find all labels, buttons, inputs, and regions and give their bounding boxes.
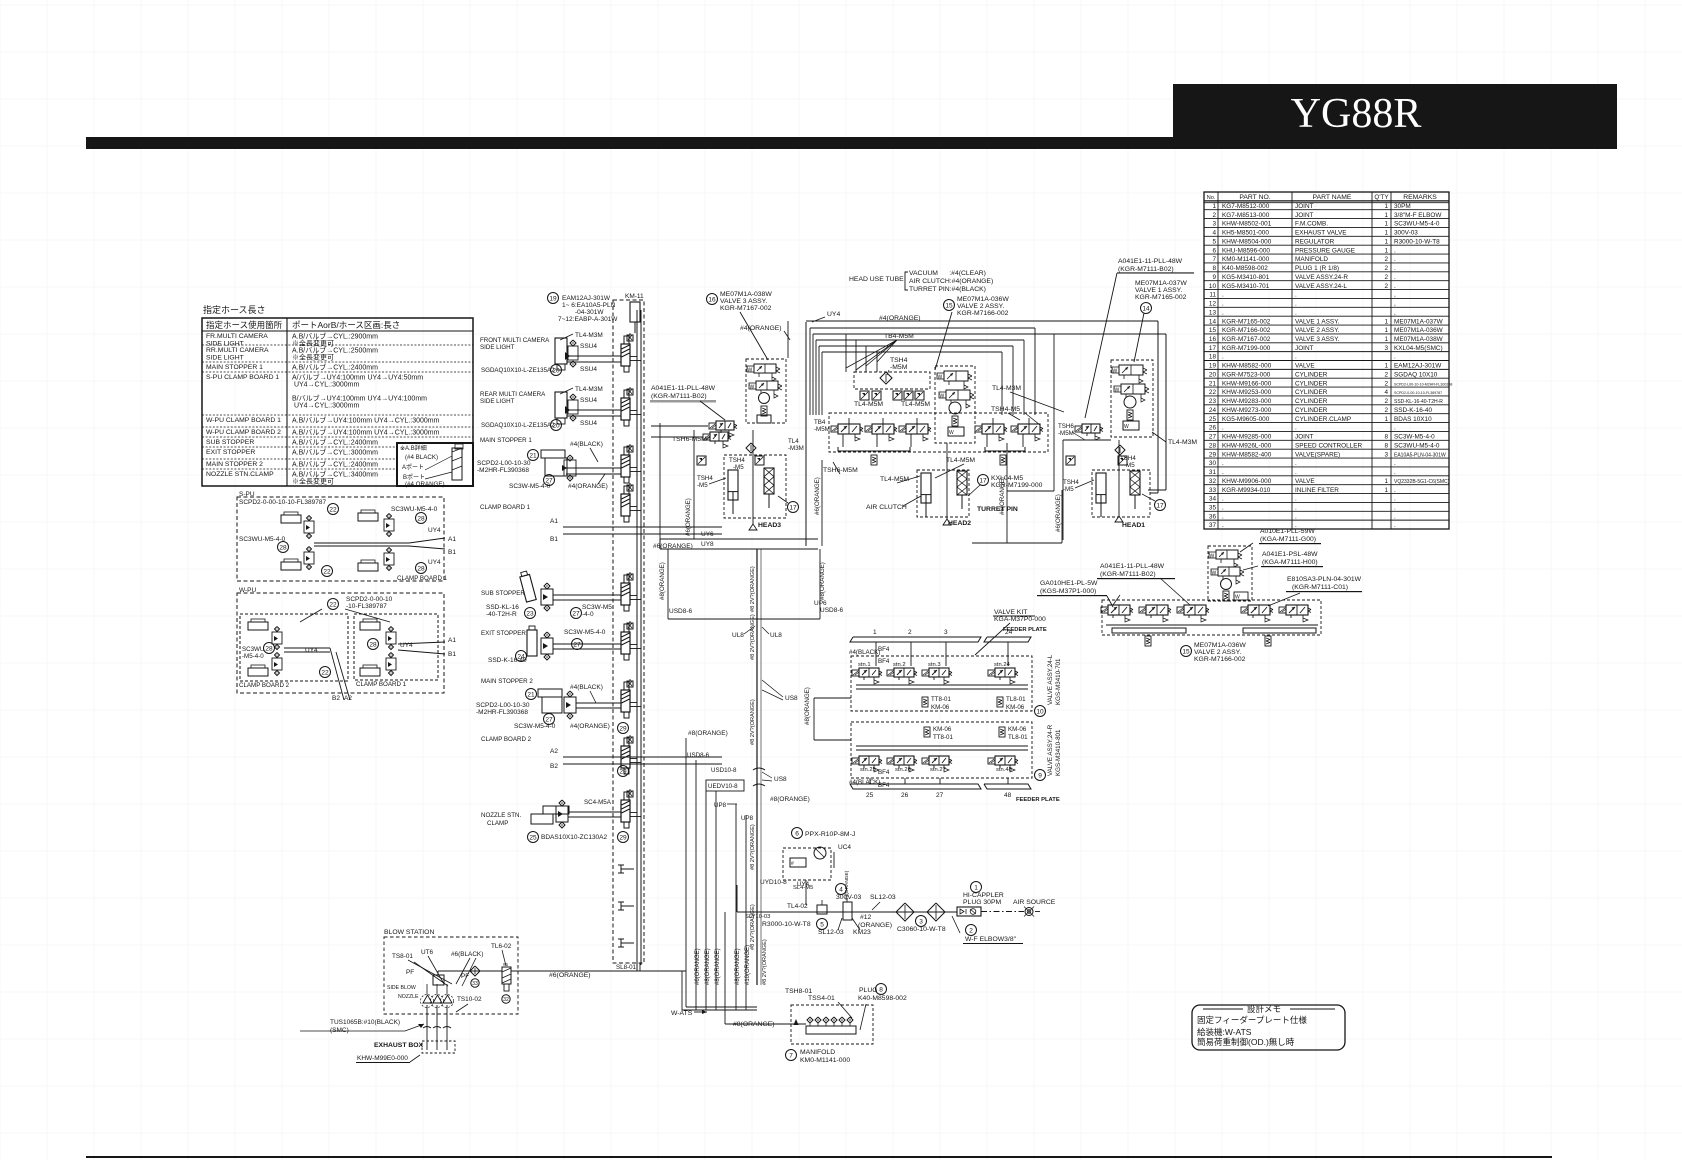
svg-text:(KGR-M7111-B02): (KGR-M7111-B02): [1100, 571, 1156, 578]
svg-text:25: 25: [1209, 416, 1217, 423]
svg-text:SSU4: SSU4: [580, 397, 597, 404]
svg-text:R3000-10-W-T8: R3000-10-W-T8: [1394, 238, 1440, 245]
svg-text:TL4-M5M: TL4-M5M: [880, 476, 909, 483]
svg-text:A.B/バルブ→CYL.:3400mm: A.B/バルブ→CYL.:3400mm: [292, 469, 378, 478]
svg-text:※A.B詳細: ※A.B詳細: [400, 444, 427, 452]
svg-text:指定ホース使用箇所: 指定ホース使用箇所: [206, 320, 283, 330]
svg-text:Bポート: Bポート: [403, 473, 425, 481]
svg-text:JOINT: JOINT: [1295, 434, 1314, 441]
svg-text:VALVE: VALVE: [1295, 478, 1315, 485]
svg-text:EAM12AJ-301W: EAM12AJ-301W: [562, 295, 611, 302]
svg-text:KGR-M7166-002: KGR-M7166-002: [957, 310, 1009, 317]
svg-text:B1: B1: [550, 536, 558, 543]
svg-text:MAIN STOPPER 1: MAIN STOPPER 1: [480, 437, 532, 444]
svg-text:KGR-M7199-000: KGR-M7199-000: [1222, 345, 1271, 352]
svg-text:B2: B2: [332, 695, 340, 702]
svg-text:48: 48: [1004, 792, 1012, 799]
svg-text:(KGR-M7111-B02): (KGR-M7111-B02): [1118, 266, 1174, 273]
svg-text:VACUUM :#4(CLEAR): VACUUM :#4(CLEAR): [909, 270, 986, 277]
svg-text:(KGS-M37P1-000): (KGS-M37P1-000): [1040, 588, 1096, 595]
svg-text:3: 3: [1384, 345, 1388, 352]
svg-text:TSH4: TSH4: [890, 357, 908, 364]
svg-text:22: 22: [323, 568, 331, 575]
svg-text:VALVE ASSY.24-R: VALVE ASSY.24-R: [1295, 274, 1348, 281]
svg-text:.: .: [1222, 354, 1224, 361]
svg-text:SL12-03: SL12-03: [870, 894, 896, 901]
svg-text:TSH4: TSH4: [729, 457, 745, 464]
svg-text:MAIN STOPPER 2: MAIN STOPPER 2: [481, 678, 533, 685]
svg-text:TUS1065B:#10(BLACK): TUS1065B:#10(BLACK): [330, 1019, 400, 1026]
svg-text:stn.27: stn.27: [930, 767, 946, 773]
svg-text:B1: B1: [448, 651, 456, 658]
svg-text:TL4-M3M: TL4-M3M: [575, 332, 603, 339]
svg-text:UY4: UY4: [827, 311, 840, 318]
svg-text:W-PU CLAMP BOARD 1: W-PU CLAMP BOARD 1: [206, 417, 281, 424]
svg-text:(ORANGE): (ORANGE): [858, 922, 892, 929]
svg-text:,: ,: [1394, 309, 1396, 316]
svg-text:KHU-M8596-000: KHU-M8596-000: [1222, 247, 1270, 254]
svg-text:34: 34: [1209, 496, 1217, 503]
svg-text:-M5-4-0: -M5-4-0: [242, 653, 264, 660]
svg-text:TL4-M3M: TL4-M3M: [1168, 439, 1197, 446]
svg-text:A2: A2: [550, 748, 558, 755]
svg-text:1~ 6:EA10A5-PLN: 1~ 6:EA10A5-PLN: [562, 302, 616, 309]
svg-text:14: 14: [1142, 305, 1150, 312]
svg-text:UY8: UY8: [701, 541, 714, 548]
svg-text:SCPD2-0-00-10-10-FL389787: SCPD2-0-00-10-10-FL389787: [239, 499, 326, 506]
svg-text:6: 6: [1212, 247, 1216, 254]
svg-text:BDAS 10X10: BDAS 10X10: [1394, 416, 1432, 423]
svg-text:#6(ORANGE): #6(ORANGE): [814, 477, 821, 515]
svg-text:8: 8: [879, 986, 883, 993]
svg-text:KGR-M7165-002: KGR-M7165-002: [1222, 318, 1271, 325]
svg-text:19: 19: [549, 295, 557, 302]
svg-text:W: W: [949, 430, 954, 436]
svg-text:KHW-M99E0-000: KHW-M99E0-000: [357, 1055, 408, 1062]
svg-text:29: 29: [619, 834, 627, 841]
svg-text:JOINT: JOINT: [1295, 345, 1314, 352]
svg-text:stn.3: stn.3: [928, 662, 941, 668]
svg-text:3/8"M-F ELBOW: 3/8"M-F ELBOW: [1394, 212, 1442, 219]
svg-text:#4(BLACK): #4(BLACK): [570, 684, 603, 691]
svg-text:AIR SOURCE: AIR SOURCE: [1013, 899, 1056, 906]
svg-text:.: .: [1394, 496, 1396, 503]
svg-text:KHW-M8582-000: KHW-M8582-000: [1222, 363, 1272, 370]
svg-text:28: 28: [279, 544, 287, 551]
svg-text:(#4 ORANGE): (#4 ORANGE): [405, 481, 445, 488]
svg-text:2: 2: [1384, 274, 1388, 281]
svg-text:.: .: [1394, 247, 1396, 254]
svg-text:SC3WU: SC3WU: [242, 646, 264, 653]
svg-text:TL8-01: TL8-01: [1006, 696, 1026, 703]
svg-text:US8: US8: [785, 695, 798, 702]
svg-text:4: 4: [839, 886, 843, 893]
svg-text:SSD-KL-16: SSD-KL-16: [486, 604, 519, 611]
svg-text:2: 2: [908, 629, 912, 636]
svg-text:#8 2V?(ORANGE): #8 2V?(ORANGE): [750, 614, 756, 660]
svg-text:TSH4: TSH4: [1063, 479, 1079, 486]
svg-text:.: .: [1394, 522, 1396, 529]
svg-text:EXHAUST BOX: EXHAUST BOX: [374, 1042, 424, 1049]
svg-text:VALVE 2 ASSY.: VALVE 2 ASSY.: [1194, 649, 1241, 656]
svg-text:VALVE 3 ASSY.: VALVE 3 ASSY.: [720, 298, 767, 305]
svg-text:ME07M1A-036W: ME07M1A-036W: [1194, 642, 1246, 649]
svg-text:-M5M: -M5M: [1058, 430, 1074, 437]
svg-text:.: .: [1295, 460, 1297, 467]
svg-text:SSD-KL-16-40-T2H-R: SSD-KL-16-40-T2H-R: [1394, 399, 1443, 405]
svg-text:3: 3: [1384, 451, 1388, 458]
svg-text:SPEED CONTROLLER: SPEED CONTROLLER: [1295, 442, 1363, 449]
svg-text:TSH6-M5M: TSH6-M5M: [823, 467, 858, 474]
svg-text:TSH6-M5M: TSH6-M5M: [672, 436, 707, 443]
svg-text:UC4: UC4: [838, 844, 851, 851]
svg-text:TT8-01: TT8-01: [933, 734, 954, 741]
svg-text:ME07M1A-038W: ME07M1A-038W: [720, 291, 772, 298]
svg-text:BLOW STATION: BLOW STATION: [384, 929, 434, 936]
svg-text:CYLINDER: CYLINDER: [1295, 389, 1328, 396]
svg-text:CLAMP BOARD 1: CLAMP BOARD 1: [397, 575, 448, 582]
svg-text:A041E1-11-PLL-48W: A041E1-11-PLL-48W: [1118, 258, 1183, 265]
svg-text:ME07M1A-036W: ME07M1A-036W: [957, 296, 1009, 303]
svg-text:#6(ORANGE): #6(ORANGE): [999, 477, 1006, 515]
svg-text:.: .: [1394, 265, 1396, 272]
svg-text:1: 1: [873, 629, 877, 636]
svg-text:17: 17: [979, 477, 987, 484]
svg-text:JOINT: JOINT: [1295, 212, 1314, 219]
svg-text:USD8-6: USD8-6: [687, 752, 710, 759]
svg-text:12: 12: [1209, 301, 1217, 308]
svg-text:16: 16: [1209, 336, 1217, 343]
svg-text:Aポート: Aポート: [402, 463, 424, 471]
svg-text:.: .: [1295, 309, 1297, 316]
svg-text:UY4: UY4: [797, 881, 810, 888]
svg-text:F.M.COMB.: F.M.COMB.: [1295, 221, 1328, 228]
svg-text:CYLINDER: CYLINDER: [1295, 398, 1328, 405]
svg-text:,: ,: [1394, 301, 1396, 308]
svg-text:.: .: [1394, 283, 1396, 290]
svg-text:REGULATOR: REGULATOR: [1295, 238, 1335, 245]
svg-text:-M3M: -M3M: [788, 445, 804, 452]
svg-text:28: 28: [1209, 442, 1217, 449]
svg-text:.: .: [1222, 309, 1224, 316]
svg-text:A.B/バルブ→CYL.:2400mm: A.B/バルブ→CYL.:2400mm: [292, 437, 378, 446]
svg-text:TL8-01: TL8-01: [1008, 734, 1028, 741]
svg-text:VALVE 3 ASSY.: VALVE 3 ASSY.: [1295, 336, 1340, 343]
svg-text:W: W: [1124, 424, 1129, 430]
svg-text:#4(ORANGE): #4(ORANGE): [570, 723, 610, 730]
svg-text:2: 2: [969, 927, 973, 934]
svg-text:R3000-10-W-T8: R3000-10-W-T8: [762, 921, 811, 928]
svg-text:W: W: [938, 375, 943, 381]
svg-text:#8 2V?(ORANGE): #8 2V?(ORANGE): [750, 824, 756, 870]
svg-text:.: .: [1394, 425, 1396, 432]
svg-text:10: 10: [1036, 708, 1044, 715]
svg-text:.: .: [1295, 496, 1297, 503]
svg-text:W: W: [1113, 369, 1118, 375]
svg-text:指定ホース長さ: 指定ホース長さ: [203, 304, 266, 315]
svg-text:KG7-M8512-000: KG7-M8512-000: [1222, 203, 1270, 210]
svg-text:#12: #12: [860, 914, 872, 921]
svg-text:USD8-6: USD8-6: [669, 608, 693, 615]
svg-text:A.B/バルブ→UY4:100mm UY4→CYL.:300: A.B/バルブ→UY4:100mm UY4→CYL.:3000mm: [292, 415, 440, 424]
svg-text:#8(ORANGE): #8(ORANGE): [733, 1021, 775, 1028]
svg-text:VALVE ASSY.24-L: VALVE ASSY.24-L: [1295, 283, 1347, 290]
svg-text:KHW-M9285-000: KHW-M9285-000: [1222, 434, 1272, 441]
svg-text:TSH4: TSH4: [1120, 455, 1136, 462]
svg-text:KHW-M9906-000: KHW-M9906-000: [1222, 478, 1272, 485]
svg-text:20: 20: [552, 367, 560, 374]
svg-text:BF4: BF4: [878, 646, 890, 653]
svg-text:.: .: [1295, 469, 1297, 476]
svg-text:28: 28: [417, 565, 425, 572]
svg-text:SC3W-M5-4-0: SC3W-M5-4-0: [509, 483, 551, 490]
svg-text:#6(ORANGE): #6(ORANGE): [1055, 494, 1062, 532]
svg-text:21: 21: [527, 691, 535, 698]
svg-text:5: 5: [820, 921, 824, 928]
svg-text:31: 31: [1209, 469, 1217, 476]
svg-text:.: .: [1222, 504, 1224, 511]
svg-text:SCPD2-L00-10-30: SCPD2-L00-10-30: [477, 460, 531, 467]
svg-text:KGR-M7523-000: KGR-M7523-000: [1222, 371, 1271, 378]
svg-text:SC3W-M5-4-0: SC3W-M5-4-0: [564, 629, 606, 636]
svg-text:-M5: -M5: [1124, 462, 1135, 469]
svg-text:#8(ORANGE): #8(ORANGE): [735, 948, 741, 985]
svg-text:GA010HE1-PL-5W: GA010HE1-PL-5W: [1040, 580, 1098, 587]
svg-text:36: 36: [1209, 513, 1217, 520]
svg-text:.: .: [1295, 301, 1297, 308]
svg-text:27: 27: [572, 610, 580, 617]
svg-text:UEDV10-8: UEDV10-8: [708, 783, 738, 790]
svg-text:PART NAME: PART NAME: [1313, 194, 1352, 201]
svg-text:.: .: [1222, 522, 1224, 529]
svg-text:20: 20: [1209, 371, 1217, 378]
svg-text:KHW-M8504-000: KHW-M8504-000: [1222, 238, 1272, 245]
svg-text:-M2HR-FL390368: -M2HR-FL390368: [477, 467, 529, 474]
svg-text:9: 9: [1212, 274, 1216, 281]
svg-text:S-PU CLAMP BOARD 1: S-PU CLAMP BOARD 1: [206, 374, 279, 381]
svg-text:22: 22: [329, 506, 337, 513]
svg-text:KHW-M9253-000: KHW-M9253-000: [1222, 389, 1272, 396]
svg-text:SC3W-M5-4-0: SC3W-M5-4-0: [514, 723, 556, 730]
svg-text:UT6: UT6: [421, 949, 434, 956]
svg-text:MAIN STOPPER 1: MAIN STOPPER 1: [206, 364, 263, 371]
svg-text:CLAMP: CLAMP: [487, 820, 508, 827]
svg-text:TS10-02: TS10-02: [457, 996, 482, 1003]
svg-text:-4-0: -4-0: [582, 611, 594, 618]
svg-text:24: 24: [1005, 629, 1013, 636]
svg-text:1: 1: [1384, 327, 1388, 334]
svg-text:EXIT STOPPER: EXIT STOPPER: [481, 630, 526, 637]
svg-text:SLY10-03: SLY10-03: [745, 914, 770, 920]
svg-text:UL8: UL8: [770, 632, 782, 639]
svg-text:#8 2V?(ORANGE): #8 2V?(ORANGE): [750, 699, 756, 745]
svg-text:8: 8: [1212, 265, 1216, 272]
svg-text:27: 27: [573, 641, 581, 648]
svg-text:33: 33: [472, 981, 478, 987]
svg-text:23: 23: [526, 610, 534, 617]
svg-text:1: 1: [1384, 221, 1388, 228]
svg-text:SCPD2-L00-10-30: SCPD2-L00-10-30: [476, 702, 530, 709]
svg-text:KG5-M9605-000: KG5-M9605-000: [1222, 416, 1270, 423]
svg-text:A2: A2: [344, 695, 352, 702]
svg-text:1: 1: [1384, 247, 1388, 254]
svg-text:(KGR-M7111-B02): (KGR-M7111-B02): [651, 393, 707, 400]
svg-text:A.B/バルブ→CYL.:2400mm: A.B/バルブ→CYL.:2400mm: [292, 459, 378, 468]
svg-text:stn.26: stn.26: [895, 767, 911, 773]
svg-text:FR.MULTI CAMERA: FR.MULTI CAMERA: [206, 333, 268, 340]
svg-text:29: 29: [619, 768, 627, 775]
svg-text:#6(ORANGE): #6(ORANGE): [685, 498, 692, 536]
svg-text:TSH4-M5: TSH4-M5: [991, 406, 1020, 413]
svg-text:BF4: BF4: [878, 769, 890, 776]
svg-text:TL4-M5M: TL4-M5M: [901, 401, 930, 408]
svg-text:15: 15: [1209, 327, 1217, 334]
svg-text:SSU4: SSU4: [580, 366, 597, 373]
svg-text:A1: A1: [550, 518, 558, 525]
svg-text:NOZZLE: NOZZLE: [398, 994, 419, 1000]
svg-text:2: 2: [1384, 407, 1388, 414]
svg-text:KGR-M7166-002: KGR-M7166-002: [1222, 327, 1271, 334]
svg-text:W-F ELBOW3/8": W-F ELBOW3/8": [965, 936, 1017, 943]
svg-text:#4(ORANGE): #4(ORANGE): [568, 483, 608, 490]
svg-text:※全長変更可: ※全長変更可: [292, 352, 334, 361]
svg-text:W: W: [750, 385, 755, 391]
svg-text:(KGA-M7111-H00): (KGA-M7111-H00): [1262, 559, 1318, 566]
svg-text:CYLINDER.CLAMP: CYLINDER.CLAMP: [1295, 416, 1351, 423]
svg-text:1: 1: [1384, 212, 1388, 219]
svg-text:#8 2V?(ORANGE): #8 2V?(ORANGE): [762, 939, 768, 985]
svg-text:HI-CAPPLER: HI-CAPPLER: [963, 892, 1004, 899]
svg-text:SGDAQ10X10-L-ZE135A2: SGDAQ10X10-L-ZE135A2: [481, 367, 555, 374]
svg-text:SGDAQ10X10-L-ZE135A2: SGDAQ10X10-L-ZE135A2: [481, 422, 555, 429]
svg-text:KGR-M7165-002: KGR-M7165-002: [1135, 294, 1187, 301]
svg-text:(SMC): (SMC): [330, 1027, 349, 1034]
svg-text:#6(ORANGE): #6(ORANGE): [695, 948, 701, 985]
svg-text:PPX-R10P-8M-J: PPX-R10P-8M-J: [805, 831, 855, 838]
svg-text:.: .: [1394, 504, 1396, 511]
svg-text:W: W: [748, 368, 753, 374]
svg-text:.: .: [1394, 256, 1396, 263]
svg-text:TL4: TL4: [788, 438, 799, 445]
svg-text:.: .: [1222, 469, 1224, 476]
svg-text:.: .: [1222, 292, 1224, 299]
svg-text:SC3W-M5: SC3W-M5: [582, 604, 612, 611]
svg-text:1: 1: [1384, 238, 1388, 245]
svg-text:37: 37: [1209, 522, 1217, 529]
svg-text:1: 1: [1212, 203, 1216, 210]
svg-text:A010E1-PLL-59W: A010E1-PLL-59W: [1260, 528, 1315, 535]
svg-text:AIR CLUTCH:#4(ORANGE): AIR CLUTCH:#4(ORANGE): [909, 278, 993, 285]
svg-text:5: 5: [1212, 238, 1216, 245]
svg-text:KG5-M3410-801: KG5-M3410-801: [1222, 274, 1270, 281]
svg-text:29: 29: [1209, 451, 1217, 458]
svg-text:7: 7: [789, 1052, 793, 1059]
svg-text:22: 22: [329, 601, 337, 608]
svg-text:#4(BLACK): #4(BLACK): [849, 779, 880, 786]
svg-text:4: 4: [1384, 389, 1388, 396]
svg-text:3: 3: [1212, 221, 1216, 228]
svg-text:15: 15: [1182, 648, 1190, 655]
svg-text:26: 26: [1209, 425, 1217, 432]
svg-text:ME07M1A-038W: ME07M1A-038W: [1394, 336, 1444, 343]
svg-text:.: .: [1295, 292, 1297, 299]
svg-text:SL12-03: SL12-03: [818, 929, 844, 936]
svg-text:PF: PF: [406, 969, 414, 976]
svg-text:17: 17: [789, 504, 797, 511]
svg-text:28: 28: [369, 641, 377, 648]
svg-text:11: 11: [1209, 292, 1216, 299]
svg-text:24: 24: [1209, 407, 1217, 414]
svg-text:KGA-M37P0-000: KGA-M37P0-000: [994, 616, 1046, 623]
svg-text:※全長変更可: ※全長変更可: [292, 338, 334, 347]
svg-text:KM0-M1141-000: KM0-M1141-000: [1222, 256, 1270, 263]
svg-text:35: 35: [1209, 504, 1217, 511]
svg-text:USD8-6: USD8-6: [820, 607, 844, 614]
svg-text:1: 1: [1384, 363, 1388, 370]
svg-text:SGDAQ 10X10: SGDAQ 10X10: [1394, 371, 1438, 378]
svg-text:TB4: TB4: [814, 419, 826, 426]
svg-text:W: W: [940, 394, 945, 400]
svg-text:SSD-K-16-40: SSD-K-16-40: [1394, 407, 1432, 414]
svg-text:26: 26: [901, 792, 909, 799]
svg-text:13: 13: [1209, 309, 1217, 316]
svg-text:A/バルブ→UY4:100mm UY4→UY4:50mm: A/バルブ→UY4:100mm UY4→UY4:50mm: [292, 372, 423, 381]
svg-text:-10-FL389787: -10-FL389787: [346, 603, 387, 610]
svg-text:VALVE 1 ASSY.: VALVE 1 ASSY.: [1295, 318, 1340, 325]
svg-text:17: 17: [1156, 502, 1164, 509]
svg-text:UY4: UY4: [428, 559, 441, 566]
svg-text:KM-06: KM-06: [1008, 726, 1027, 733]
svg-text:A.B/バルブ→CYL.:2900mm: A.B/バルブ→CYL.:2900mm: [292, 331, 378, 340]
svg-text:EXHAUST VALVE: EXHAUST VALVE: [1295, 230, 1347, 237]
svg-text:1: 1: [1384, 336, 1388, 343]
svg-text:22: 22: [321, 669, 329, 676]
svg-text:ME07M1A-037W: ME07M1A-037W: [1135, 280, 1187, 287]
svg-text:W: W: [1115, 388, 1120, 394]
svg-text:PLUG 30PM: PLUG 30PM: [963, 899, 1001, 906]
svg-text:30: 30: [1209, 460, 1217, 467]
svg-text:KXL04-M5(SMC): KXL04-M5(SMC): [1394, 345, 1443, 352]
svg-text:EA10A5-PLN-04-301W: EA10A5-PLN-04-301W: [1394, 452, 1446, 458]
svg-text:NOZZLE STN.: NOZZLE STN.: [481, 812, 522, 819]
svg-text:17: 17: [1209, 345, 1217, 352]
svg-text:ME07M1A-037W: ME07M1A-037W: [1394, 318, 1444, 325]
svg-text:stn.25: stn.25: [860, 767, 876, 773]
svg-text:TL4-02: TL4-02: [787, 903, 808, 910]
svg-text:EXIT STOPPER: EXIT STOPPER: [206, 449, 255, 456]
svg-text:20: 20: [552, 422, 560, 429]
svg-text:SUB STOPPER: SUB STOPPER: [206, 439, 254, 446]
svg-text:HEAD2: HEAD2: [948, 520, 971, 527]
svg-text:TURRET PIN: TURRET PIN: [977, 506, 1018, 513]
svg-text:.: .: [1394, 274, 1396, 281]
svg-text:300V-03: 300V-03: [1394, 230, 1418, 237]
svg-text:10: 10: [1209, 283, 1217, 290]
svg-text:簡易荷重制御(OD.)無し時: 簡易荷重制御(OD.)無し時: [1197, 1037, 1295, 1047]
svg-text:CYLINDER: CYLINDER: [1295, 407, 1328, 414]
svg-text:-M5M: -M5M: [890, 364, 908, 371]
svg-text:C3060-10-W-T8: C3060-10-W-T8: [897, 926, 946, 933]
svg-text:SC3WU-M5-4-0: SC3WU-M5-4-0: [239, 536, 286, 543]
svg-text:KHW-M8582-400: KHW-M8582-400: [1222, 451, 1272, 458]
svg-text:8: 8: [1384, 434, 1388, 441]
svg-text:33: 33: [1209, 487, 1217, 494]
svg-text:SC3WU-M5-4-0: SC3WU-M5-4-0: [1394, 221, 1440, 228]
svg-text:16: 16: [708, 296, 716, 303]
svg-text:INLINE FILTER: INLINE FILTER: [1295, 487, 1339, 494]
svg-text:32: 32: [503, 997, 509, 1003]
svg-text:2: 2: [1384, 380, 1388, 387]
